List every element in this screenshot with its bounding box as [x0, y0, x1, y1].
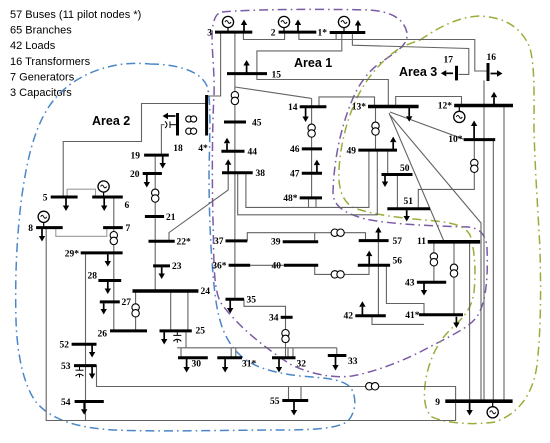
transformer T bottom rail — [366, 383, 379, 390]
generator G12 — [454, 106, 465, 123]
generator G3 — [222, 16, 233, 32]
transformer T 18-4 b — [186, 128, 197, 134]
capacitor bus18 — [165, 121, 178, 128]
bus 43 — [417, 281, 446, 284]
transformer T 11-41 — [450, 264, 457, 277]
bus 5 — [51, 196, 78, 199]
svg-text:26: 26 — [98, 330, 108, 340]
load arrow bus18 left — [168, 115, 176, 117]
svg-text:45: 45 — [252, 119, 262, 129]
wire bus34-bus32 — [285, 317, 287, 358]
load arrow bus31 down — [224, 359, 226, 367]
svg-text:19: 19 — [131, 152, 141, 162]
load arrow bus52 down — [91, 346, 93, 353]
svg-text:34: 34 — [269, 314, 279, 324]
svg-text:21: 21 — [166, 213, 176, 223]
load arrow bus51 down — [406, 210, 408, 216]
svg-text:15: 15 — [272, 71, 282, 81]
svg-text:24: 24 — [201, 287, 211, 297]
svg-text:46: 46 — [290, 145, 300, 155]
load arrow bus54 down — [83, 403, 85, 410]
load arrow bus16 right — [491, 73, 498, 75]
bus 3 — [215, 31, 252, 34]
svg-text:44: 44 — [248, 148, 258, 158]
load arrow bus29 down — [107, 254, 109, 261]
bus 17 — [455, 66, 458, 81]
load arrow bus55 down — [293, 402, 295, 410]
bus 47 — [302, 172, 322, 175]
wire bus25 drop — [185, 331, 187, 348]
bus 37 — [226, 239, 248, 242]
wire bus42-bus41 — [372, 316, 424, 325]
bus 54 — [75, 400, 104, 403]
bus 18 — [176, 113, 179, 136]
wire bus31 stub b — [235, 348, 237, 358]
load arrow bus19 down — [162, 156, 164, 163]
wire bus30 stub — [180, 348, 182, 358]
Area 2 boundary (blue dash-dot) — [16, 63, 355, 430]
svg-text:9: 9 — [435, 398, 440, 408]
svg-text:20: 20 — [130, 170, 140, 180]
svg-text:Area 3: Area 3 — [399, 65, 437, 79]
load arrow bus30 down — [186, 359, 188, 367]
wire bus12-bus9 — [503, 106, 505, 402]
wire bus24-bus25 b — [187, 291, 189, 331]
bus 50 — [382, 173, 413, 176]
svg-text:42 Loads: 42 Loads — [10, 40, 56, 52]
bus 12* — [454, 104, 513, 107]
svg-text:8: 8 — [28, 224, 33, 234]
svg-text:33: 33 — [348, 357, 358, 367]
bus 46 — [302, 147, 322, 150]
bus 53 — [74, 364, 97, 367]
svg-text:6: 6 — [125, 201, 130, 211]
wire bus13-bus11 diagonal — [389, 113, 444, 242]
svg-text:55: 55 — [270, 397, 280, 407]
wire bus14-bus13 — [319, 97, 375, 107]
wire bus14-46-47-48 spine — [311, 98, 313, 197]
load arrow bus43 down — [423, 284, 425, 291]
svg-text:43: 43 — [405, 279, 415, 289]
load arrow bus25 down — [163, 332, 165, 339]
wire bus6-7-29-28-27-26 — [113, 197, 115, 331]
load arrow bus49 up — [392, 142, 394, 149]
generator G8 — [38, 211, 49, 227]
transformer T 10-51 — [471, 159, 478, 172]
svg-text:42: 42 — [344, 312, 354, 322]
transformer T 13-49 — [372, 122, 379, 135]
wire bus15-bus14 diagonal — [235, 87, 312, 98]
svg-text:18: 18 — [173, 144, 183, 154]
bus 48* — [300, 196, 322, 199]
load arrow bus20 down — [146, 175, 148, 182]
load arrow bus12 up — [493, 97, 495, 104]
bus 8 — [36, 226, 63, 229]
svg-text:51: 51 — [404, 197, 414, 207]
wire bus24-bus25 a — [170, 291, 172, 331]
load arrow bus56 up — [368, 256, 370, 264]
bus 24 — [133, 289, 199, 293]
svg-text:14: 14 — [288, 103, 298, 113]
wire bus11-bus41 — [453, 242, 455, 315]
wire bus50-bus51 — [396, 175, 398, 209]
wire bus13-bus10 diagonal — [390, 112, 464, 139]
svg-text:30: 30 — [192, 360, 202, 370]
transformer T 14-46 — [308, 124, 315, 137]
bus 44 — [221, 150, 244, 153]
svg-text:57: 57 — [393, 237, 403, 247]
load arrow bus35 down — [229, 301, 231, 309]
svg-text:29*: 29* — [65, 250, 80, 260]
svg-text:17: 17 — [444, 56, 454, 66]
load arrow bus41 down — [455, 317, 457, 323]
wire bus1-bus15-bus13 — [257, 33, 388, 107]
generator G1 — [338, 16, 349, 32]
bus 26 — [110, 329, 147, 332]
load arrow bus6 down — [103, 198, 105, 206]
bus 22* — [149, 240, 175, 243]
svg-text:7: 7 — [126, 224, 131, 234]
bus 57 — [359, 239, 389, 242]
svg-text:48*: 48* — [283, 194, 298, 204]
load arrow bus47 up — [316, 165, 318, 172]
svg-text:56: 56 — [393, 257, 403, 267]
load arrow bus28 down — [107, 282, 109, 289]
svg-text:2: 2 — [271, 29, 276, 39]
bus 10* — [464, 138, 496, 141]
bus 6 — [92, 196, 123, 199]
bus 49 — [358, 149, 397, 152]
wire bus38-bus48-bus49 — [246, 150, 369, 207]
load arrow bus44 up — [226, 143, 228, 150]
transformer T 15-45 — [231, 92, 238, 105]
svg-text:65 Branches: 65 Branches — [10, 25, 72, 37]
Area 1 boundary (purple dash-dot) — [212, 9, 487, 376]
bus 4* — [205, 95, 208, 136]
generator G6 — [98, 181, 109, 197]
svg-text:7 Generators: 7 Generators — [10, 71, 75, 83]
bus 11 — [428, 240, 480, 244]
load arrow bus53 down — [91, 367, 93, 374]
bus 23 — [153, 264, 170, 267]
generator G9 — [487, 401, 498, 418]
svg-text:39: 39 — [271, 238, 281, 248]
bus 42 — [355, 314, 386, 317]
load arrow bus27 down — [103, 303, 105, 309]
transformer T 20-21 — [152, 189, 159, 202]
bus 16 — [487, 63, 490, 81]
transformer T 18-4 a — [186, 116, 197, 122]
wire spine bus3-15-45-44-38-37-36-35 — [234, 32, 236, 299]
transformer T 11-43 — [430, 253, 437, 266]
load arrow bus10 up — [473, 126, 475, 138]
wire bus37-bus39-bus57 — [247, 233, 365, 241]
load arrow bus50 down — [384, 176, 386, 182]
transformer T 7-29 — [110, 232, 117, 245]
bus 36* — [229, 264, 251, 267]
load arrow bus13 down — [408, 108, 410, 116]
load arrow bus57 up — [377, 233, 379, 240]
bus 33 — [328, 354, 347, 357]
bus 9 — [445, 399, 512, 403]
svg-text:35: 35 — [247, 296, 257, 306]
svg-text:16: 16 — [487, 53, 497, 63]
transformer T 34-32 — [282, 330, 289, 343]
bus 40 — [284, 264, 318, 267]
wire bus49-bus50 — [387, 150, 389, 174]
load arrow bus5 down — [65, 198, 67, 206]
svg-text:5: 5 — [43, 194, 48, 204]
wire bus1-bus17 — [352, 33, 468, 75]
load arrow bus3 up — [243, 25, 245, 31]
wire bus13-bus9 diagonal — [390, 115, 481, 401]
svg-text:31*: 31* — [242, 360, 257, 370]
transformer T 39-57 — [331, 229, 344, 236]
stats text block — [10, 9, 141, 99]
wire bus39 stub — [314, 233, 316, 242]
svg-text:3: 3 — [207, 29, 212, 39]
bus 38 — [222, 171, 253, 174]
bus 52 — [72, 343, 97, 346]
bus 20 — [143, 172, 162, 175]
wire bus11-bus9 — [469, 242, 471, 401]
bus 2 — [279, 31, 317, 34]
wire bus55 stub b — [300, 387, 302, 401]
svg-text:32: 32 — [297, 360, 307, 370]
bus 27 — [100, 300, 120, 303]
load arrow bus1 up — [357, 26, 359, 32]
load arrow bus2 up — [297, 25, 299, 31]
bus 28 — [98, 279, 121, 282]
bus 7 — [103, 226, 123, 229]
bus 56 — [358, 264, 390, 267]
svg-text:50: 50 — [400, 164, 410, 174]
svg-text:22*: 22* — [177, 238, 192, 248]
svg-text:16 Transformers: 16 Transformers — [10, 56, 91, 68]
wire bus10-bus9 — [492, 140, 494, 402]
wire bus11-bus43 — [433, 242, 435, 282]
load arrow bus32 down — [278, 359, 280, 367]
svg-text:53: 53 — [61, 362, 71, 372]
transformer T 40-56 — [331, 271, 344, 278]
svg-text:49: 49 — [347, 147, 357, 157]
wire manifold 30-31-32-33 — [177, 347, 337, 349]
wire bus16-bus12-bus9 — [483, 80, 485, 401]
wire bus56-bus41 — [386, 265, 424, 315]
wire bus19-20-21-22-23-24 spine — [154, 155, 156, 291]
wire bus19-capacitor-bus18 — [161, 125, 164, 155]
svg-text:4*: 4* — [198, 144, 208, 154]
wire bus38-bus49 — [238, 150, 378, 215]
transformer T 24-26 — [132, 304, 139, 317]
svg-text:40: 40 — [272, 262, 282, 272]
wire bus13-bus49 transformer chain — [375, 107, 377, 151]
svg-text:12*: 12* — [438, 102, 453, 112]
wire bus24-bus26 — [135, 291, 137, 331]
wire bus8-bus7 — [56, 228, 107, 237]
bus 34 — [281, 316, 293, 319]
wire bus4-bus5 — [63, 104, 206, 198]
wire bus1 stub — [335, 33, 337, 40]
wire bus36-bus40 — [250, 264, 284, 266]
bus 31* — [217, 356, 242, 359]
bus 41* — [419, 313, 463, 316]
wire bus10-bus51 — [418, 140, 474, 209]
svg-text:47: 47 — [290, 170, 300, 180]
wire bus5-bus6 — [67, 189, 95, 197]
capacitor C bus25 — [173, 332, 181, 343]
wire bus8-bus9 bottom rail loop — [46, 228, 455, 421]
wire bus3-bus4 — [208, 32, 221, 96]
load arrow bus14 down — [305, 108, 307, 117]
bus 13* — [368, 105, 419, 108]
svg-text:11: 11 — [417, 237, 426, 247]
wire bus33 stub — [336, 348, 338, 356]
bus 45 — [224, 121, 246, 124]
bus 29* — [81, 251, 123, 254]
svg-text:52: 52 — [60, 341, 70, 351]
svg-text:36*: 36* — [212, 262, 227, 272]
wire bus29-52-53-54 spine — [85, 253, 87, 421]
bus 55 — [282, 399, 308, 402]
wire bus32 stub b — [292, 348, 294, 358]
bus 15 — [227, 72, 267, 75]
load arrow bus23 down — [161, 267, 163, 273]
wire bus57-56-42 spine — [377, 241, 379, 316]
svg-text:Area 2: Area 2 — [92, 114, 130, 128]
bus 30 — [178, 356, 208, 359]
svg-text:23: 23 — [172, 262, 182, 272]
bus 39 — [283, 240, 319, 243]
load arrow bus38 up — [227, 165, 229, 172]
wire bus35-bus34 — [244, 299, 286, 317]
load arrow bus9 down — [469, 403, 471, 411]
svg-text:57 Buses (11 pilot nodes *): 57 Buses (11 pilot nodes *) — [10, 9, 141, 21]
wire bus32 stub a — [287, 348, 289, 358]
wire bus40-bus56 — [315, 265, 369, 274]
svg-text:54: 54 — [61, 398, 71, 408]
wire bus3-bus2 — [243, 32, 284, 40]
svg-text:28: 28 — [88, 272, 98, 282]
svg-text:13*: 13* — [352, 103, 367, 113]
wire bus31 stub a — [230, 348, 232, 358]
svg-text:27: 27 — [122, 298, 132, 308]
svg-text:25: 25 — [196, 327, 206, 337]
svg-text:38: 38 — [256, 169, 266, 179]
bus 19 — [144, 154, 169, 157]
wire bus55 stub a — [288, 387, 290, 401]
load arrow bus33 down — [335, 357, 337, 365]
bus 35 — [226, 298, 245, 301]
wire bus2-bus16 — [299, 32, 487, 71]
bus 25 — [160, 329, 192, 332]
svg-text:1*: 1* — [318, 29, 328, 39]
svg-text:37: 37 — [214, 237, 224, 247]
svg-text:Area 1: Area 1 — [294, 56, 332, 70]
svg-text:10*: 10* — [448, 135, 463, 145]
wire bus48 stub a — [308, 199, 310, 208]
Area 3 boundary (olive dash-dot) — [339, 16, 541, 424]
svg-text:3 Capacitors: 3 Capacitors — [10, 87, 72, 99]
bus 32 — [272, 356, 296, 359]
wire bus13-bus12 — [396, 97, 462, 107]
wire bus22-bus38 diagonal — [169, 173, 228, 242]
bus 21 — [145, 215, 164, 218]
bus 51 — [387, 207, 430, 210]
generator G2 — [278, 16, 289, 32]
wire bus48 stub b — [315, 199, 317, 208]
capacitor C bus53 — [76, 367, 84, 378]
load arrow bus15 up — [246, 66, 248, 73]
load arrow bus17 left — [446, 72, 453, 74]
svg-text:41*: 41* — [405, 311, 420, 321]
load arrow bus8 down — [41, 229, 43, 236]
bus 14 — [300, 105, 327, 108]
bus 1* — [330, 31, 366, 34]
load arrow bus42 up — [361, 307, 363, 315]
